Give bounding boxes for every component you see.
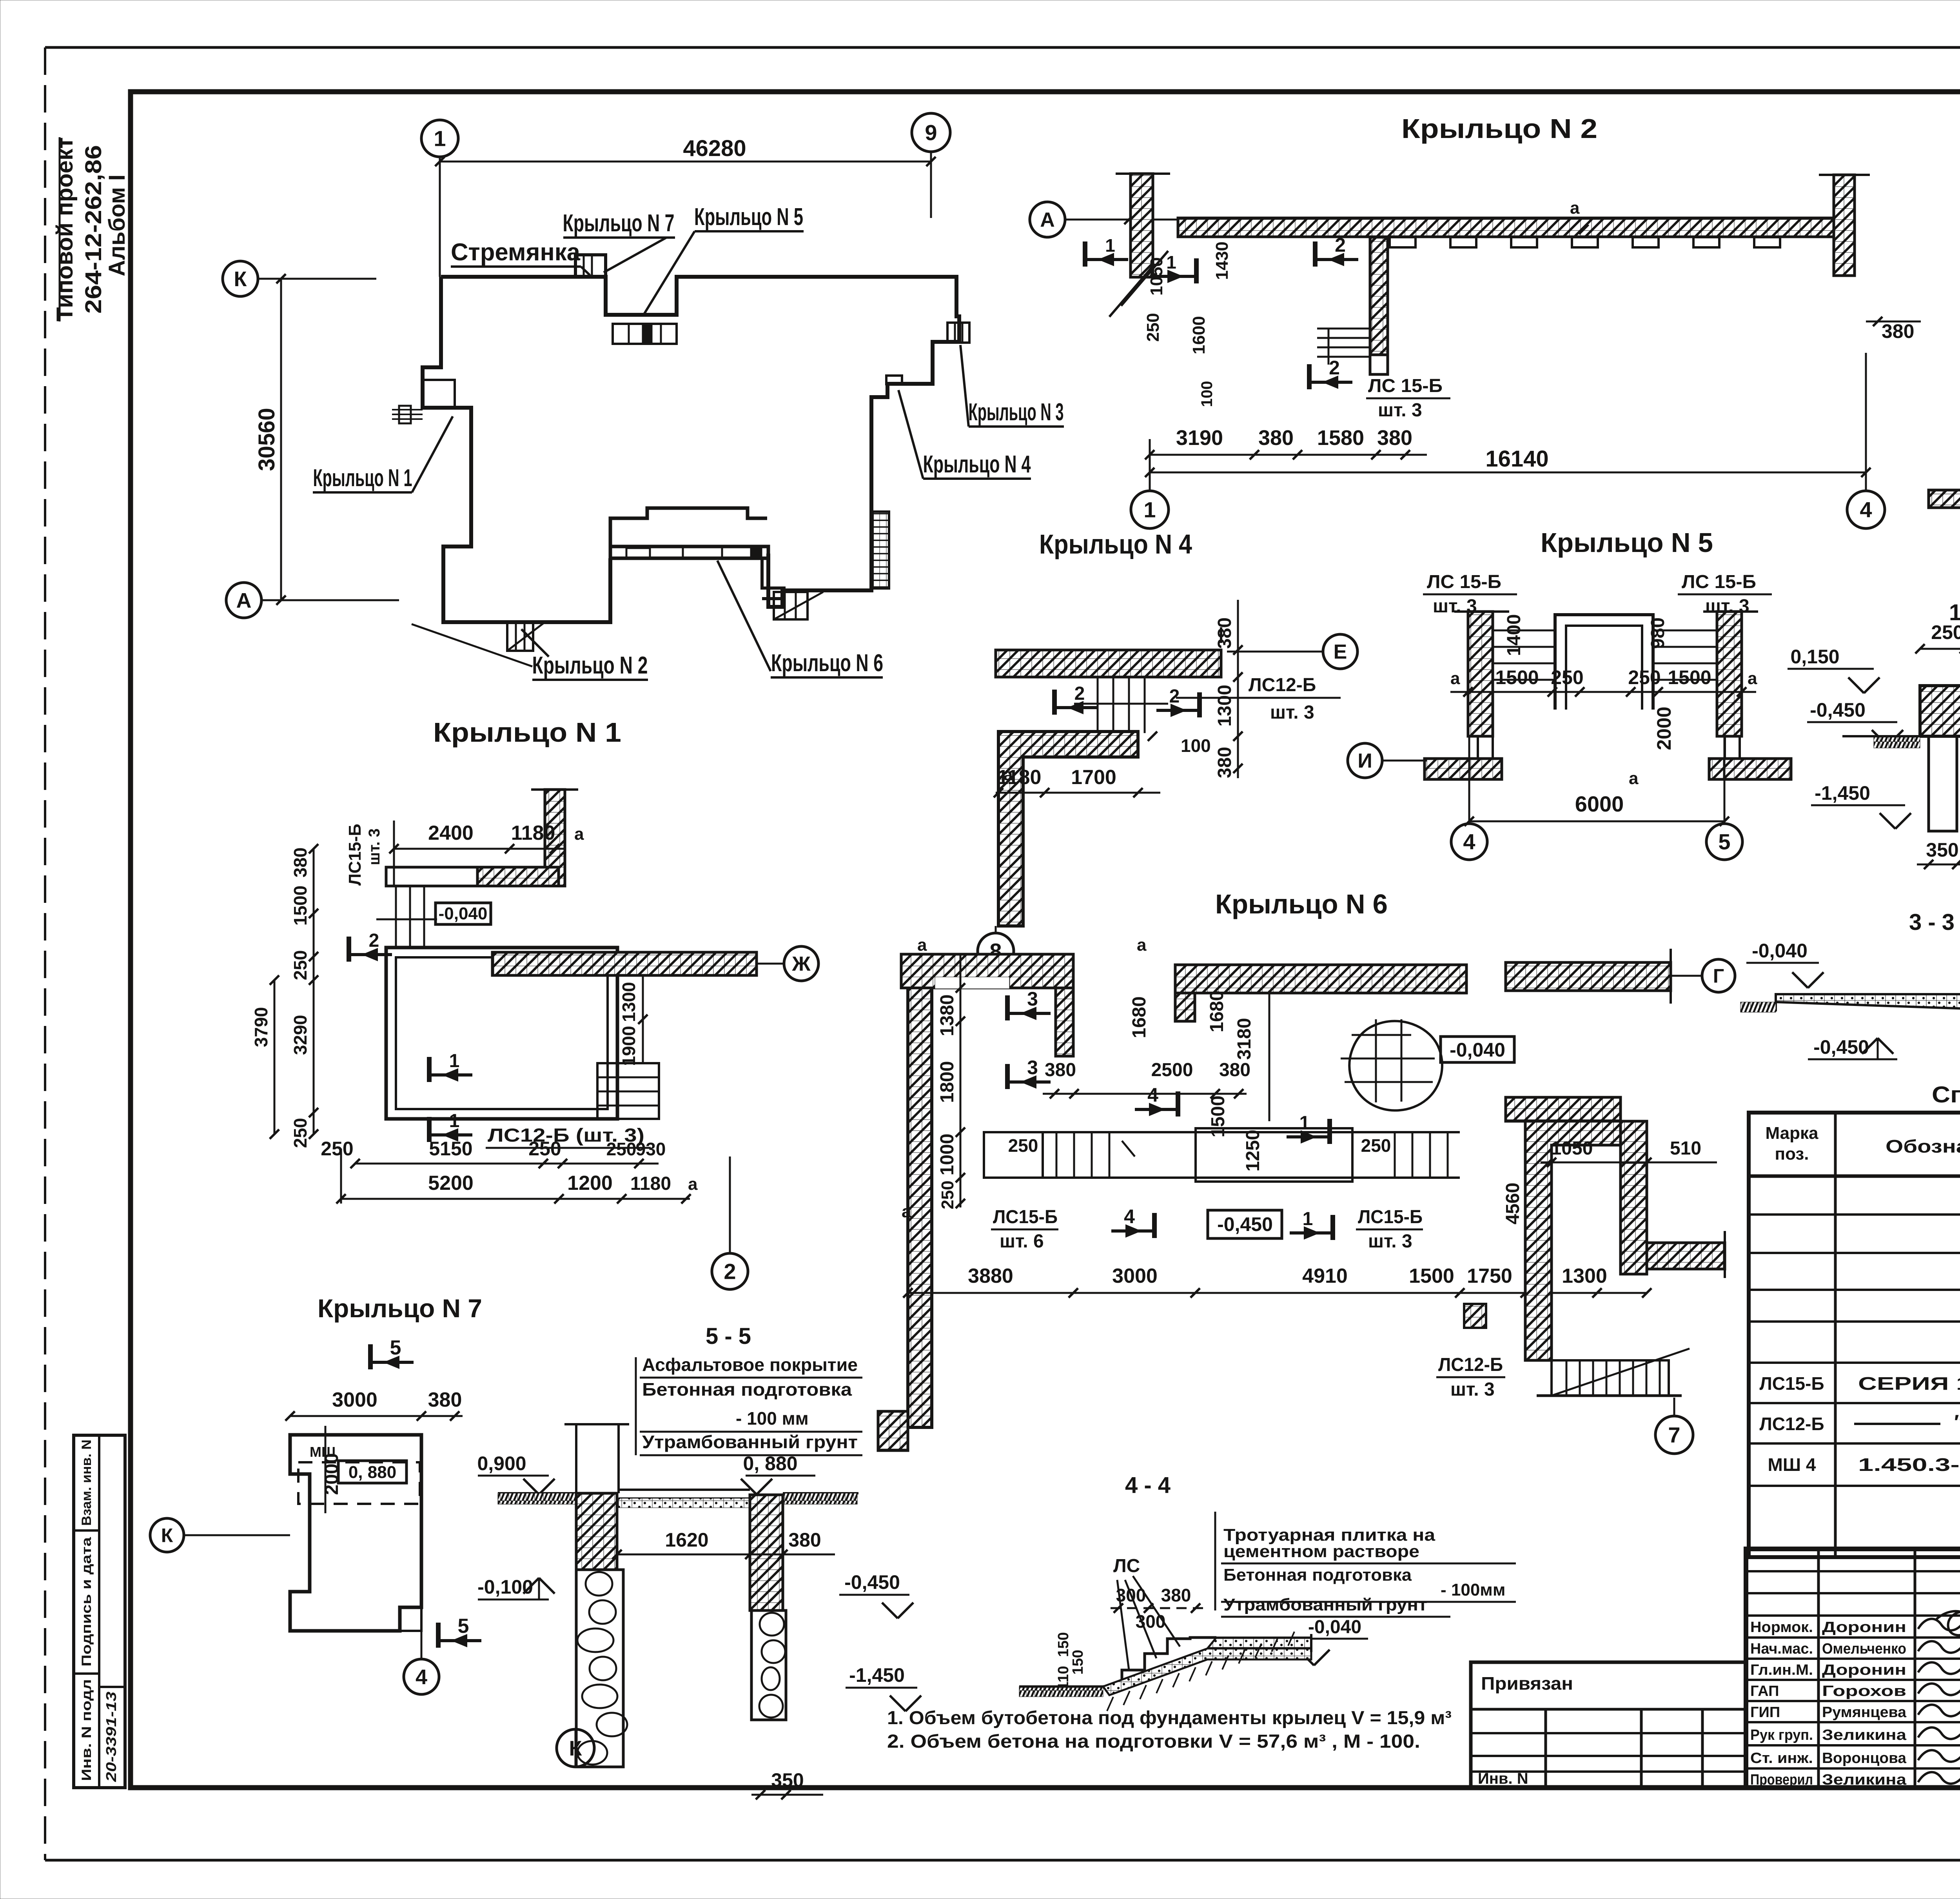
svg-text:2: 2 bbox=[1335, 234, 1346, 256]
svg-text:а: а bbox=[1004, 765, 1013, 784]
svg-text:- 100 мм: - 100 мм bbox=[736, 1408, 809, 1429]
svg-text:2400: 2400 bbox=[428, 822, 474, 844]
svg-text:ЛС12-Б: ЛС12-Б bbox=[1438, 1354, 1503, 1375]
svg-text:″: ″ bbox=[1954, 1411, 1960, 1434]
svg-text:1180: 1180 bbox=[511, 822, 555, 844]
svg-text:Воронцова: Воронцова bbox=[1822, 1750, 1907, 1766]
svg-text:250: 250 bbox=[1551, 666, 1583, 688]
svg-text:930: 930 bbox=[636, 1139, 666, 1159]
svg-text:Крыльцо N 1: Крыльцо N 1 bbox=[313, 465, 412, 492]
svg-text:1700: 1700 bbox=[1071, 766, 1116, 789]
svg-text:380: 380 bbox=[1161, 1585, 1191, 1605]
svg-text:Марка: Марка bbox=[1765, 1124, 1818, 1143]
svg-text:СЕРИЯ 1.055.1-1: СЕРИЯ 1.055.1-1 bbox=[1858, 1373, 1960, 1394]
svg-text:3180: 3180 bbox=[1234, 1018, 1255, 1060]
svg-text:0,150: 0,150 bbox=[1790, 646, 1839, 668]
svg-text:Крыльцо N 6: Крыльцо N 6 bbox=[1215, 889, 1388, 919]
svg-text:ЛС 15-Б: ЛС 15-Б bbox=[1368, 376, 1443, 396]
svg-text:264-12-262,86: 264-12-262,86 bbox=[81, 145, 106, 314]
svg-text:5 - 5: 5 - 5 bbox=[706, 1323, 751, 1349]
svg-text:1: 1 bbox=[1105, 235, 1115, 256]
svg-text:Крыльцо N 7: Крыльцо N 7 bbox=[563, 210, 675, 237]
svg-text:1380: 1380 bbox=[937, 995, 958, 1037]
svg-text:0,900: 0,900 bbox=[477, 1452, 526, 1474]
svg-text:МШ 4: МШ 4 bbox=[1768, 1454, 1816, 1475]
svg-text:-1,450: -1,450 bbox=[1815, 782, 1870, 804]
svg-text:1500: 1500 bbox=[290, 886, 310, 926]
svg-text:ЛС 15-Б: ЛС 15-Б bbox=[1427, 572, 1501, 592]
svg-text:3880: 3880 bbox=[968, 1265, 1013, 1287]
svg-text:1500: 1500 bbox=[1668, 666, 1711, 688]
svg-text:3290: 3290 bbox=[290, 1015, 310, 1055]
svg-text:250: 250 bbox=[290, 950, 310, 980]
svg-text:510: 510 bbox=[1670, 1138, 1701, 1159]
svg-text:-0,040: -0,040 bbox=[1450, 1039, 1505, 1061]
svg-text:Ж: Ж bbox=[792, 953, 811, 975]
svg-text:Крыльцо N 2: Крыльцо N 2 bbox=[532, 652, 648, 679]
svg-text:5: 5 bbox=[390, 1336, 401, 1359]
svg-text:шт. 3: шт. 3 bbox=[1378, 400, 1422, 421]
svg-text:Крыльцо N 3: Крыльцо N 3 bbox=[969, 399, 1064, 426]
svg-text:250: 250 bbox=[606, 1139, 637, 1159]
svg-text:5: 5 bbox=[1718, 830, 1730, 854]
svg-text:ЛС 15-Б: ЛС 15-Б bbox=[1682, 572, 1756, 592]
svg-text:1750: 1750 bbox=[1467, 1265, 1512, 1287]
svg-text:150: 150 bbox=[1055, 1632, 1072, 1657]
svg-text:6000: 6000 bbox=[1575, 792, 1624, 816]
svg-text:Ст. инж.: Ст. инж. bbox=[1750, 1750, 1813, 1766]
svg-text:К: К bbox=[161, 1525, 173, 1547]
svg-text:250: 250 bbox=[938, 1180, 957, 1209]
svg-text:2: 2 bbox=[1169, 686, 1180, 707]
svg-text:ГАП: ГАП bbox=[1750, 1683, 1779, 1699]
svg-text:1600: 1600 bbox=[1189, 316, 1209, 354]
svg-text:Крыльцо N 7: Крыльцо N 7 bbox=[318, 1294, 482, 1323]
svg-text:3790: 3790 bbox=[251, 1007, 271, 1047]
svg-text:250: 250 bbox=[1143, 313, 1163, 341]
svg-text:Инв. N подл: Инв. N подл bbox=[79, 1679, 94, 1781]
svg-text:- 100мм: - 100мм bbox=[1441, 1580, 1505, 1599]
svg-text:А: А bbox=[236, 589, 252, 612]
svg-text:а: а bbox=[1629, 769, 1639, 788]
svg-text:300: 300 bbox=[1136, 1611, 1166, 1632]
svg-text:380: 380 bbox=[1219, 1060, 1250, 1080]
svg-text:980: 980 bbox=[1648, 617, 1668, 649]
svg-text:-0,100: -0,100 bbox=[477, 1576, 533, 1598]
svg-text:шт. 3: шт. 3 bbox=[1450, 1379, 1495, 1400]
svg-text:Крыльцо N 2: Крыльцо N 2 bbox=[1401, 113, 1597, 144]
svg-text:Е: Е bbox=[1334, 641, 1347, 663]
svg-text:30560: 30560 bbox=[254, 408, 279, 471]
svg-text:1580: 1580 bbox=[1317, 426, 1364, 450]
svg-text:1: 1 bbox=[449, 1051, 460, 1071]
svg-text:1300: 1300 bbox=[1562, 1265, 1607, 1287]
svg-text:7: 7 bbox=[1668, 1423, 1680, 1447]
svg-text:1500: 1500 bbox=[1409, 1265, 1454, 1287]
svg-text:1: 1 bbox=[1299, 1113, 1310, 1133]
svg-text:1250: 1250 bbox=[1243, 1130, 1263, 1172]
svg-text:-0,450: -0,450 bbox=[844, 1571, 900, 1593]
svg-text:1050: 1050 bbox=[1147, 257, 1166, 296]
svg-text:Рук груп.: Рук груп. bbox=[1750, 1727, 1813, 1743]
svg-text:ЛС15-Б: ЛС15-Б bbox=[1759, 1373, 1824, 1394]
svg-text:Проверил: Проверил bbox=[1750, 1772, 1813, 1788]
svg-text:Нач.мас.: Нач.мас. bbox=[1750, 1641, 1813, 1657]
svg-text:1200: 1200 bbox=[567, 1172, 613, 1195]
svg-text:2500: 2500 bbox=[1151, 1060, 1193, 1080]
svg-text:250: 250 bbox=[528, 1138, 561, 1160]
svg-text:100: 100 bbox=[1198, 381, 1216, 407]
svg-text:380: 380 bbox=[1045, 1060, 1076, 1080]
svg-text:Крыльцо N 5: Крыльцо N 5 bbox=[694, 203, 803, 231]
svg-text:-0,450: -0,450 bbox=[1217, 1213, 1273, 1235]
svg-text:Горохов: Горохов bbox=[1822, 1683, 1906, 1699]
svg-text:Крыльцо N 1: Крыльцо N 1 bbox=[433, 717, 621, 748]
svg-text:а: а bbox=[1748, 669, 1757, 688]
svg-text:Зеликина: Зеликина bbox=[1822, 1772, 1907, 1788]
svg-text:Типовой проект: Типовой проект bbox=[52, 137, 78, 321]
svg-text:1: 1 bbox=[434, 126, 446, 151]
svg-text:Утрамбованный грунт: Утрамбованный грунт bbox=[642, 1432, 858, 1452]
svg-text:Обозначение: Обозначение bbox=[1886, 1136, 1960, 1156]
svg-text:1: 1 bbox=[1166, 252, 1176, 272]
svg-text:380: 380 bbox=[1377, 426, 1412, 450]
svg-text:Крыльцо N 6: Крыльцо N 6 bbox=[771, 650, 883, 677]
svg-text:4: 4 bbox=[1463, 830, 1475, 854]
svg-text:4: 4 bbox=[1147, 1084, 1158, 1106]
svg-text:16140: 16140 bbox=[1485, 446, 1548, 472]
svg-text:250: 250 bbox=[1008, 1135, 1038, 1156]
svg-text:380: 380 bbox=[428, 1389, 462, 1411]
svg-text:-0,040: -0,040 bbox=[1308, 1617, 1361, 1638]
svg-text:380: 380 bbox=[1214, 747, 1235, 778]
svg-text:9: 9 bbox=[925, 120, 937, 145]
svg-text:2: 2 bbox=[1329, 357, 1340, 379]
svg-text:4: 4 bbox=[1124, 1205, 1135, 1227]
svg-text:380: 380 bbox=[1258, 426, 1294, 450]
svg-text:а: а bbox=[1450, 669, 1460, 688]
svg-text:1680: 1680 bbox=[1129, 997, 1150, 1038]
svg-text:4: 4 bbox=[1860, 497, 1872, 522]
svg-text:3: 3 bbox=[1027, 1057, 1038, 1078]
svg-text:380: 380 bbox=[1882, 320, 1914, 342]
svg-text:Доронин: Доронин bbox=[1822, 1619, 1906, 1636]
svg-text:Бетонная подготовка: Бетонная подготовка bbox=[642, 1379, 852, 1400]
svg-text:ЛС: ЛС bbox=[1113, 1556, 1140, 1576]
svg-text:Бетонная подготовка: Бетонная подготовка bbox=[1223, 1565, 1412, 1585]
svg-text:а: а bbox=[1137, 935, 1147, 955]
svg-text:1: 1 bbox=[1143, 497, 1156, 522]
svg-text:250: 250 bbox=[1628, 666, 1661, 688]
svg-text:ГИП: ГИП bbox=[1750, 1704, 1780, 1721]
svg-text:Крыльцо N 4: Крыльцо N 4 bbox=[1039, 529, 1192, 559]
svg-text:1050: 1050 bbox=[1551, 1138, 1593, 1159]
svg-text:1180: 1180 bbox=[630, 1173, 671, 1194]
svg-text:Крыльцо N 4: Крыльцо N 4 bbox=[923, 451, 1031, 478]
svg-text:380: 380 bbox=[290, 848, 310, 878]
svg-text:46280: 46280 bbox=[683, 136, 746, 161]
svg-text:ЛС15-Б: ЛС15-Б bbox=[345, 824, 365, 886]
svg-text:4910: 4910 bbox=[1302, 1265, 1348, 1287]
svg-text:1680: 1680 bbox=[1207, 991, 1227, 1033]
svg-text:поз.: поз. bbox=[1775, 1144, 1809, 1164]
svg-text:3000: 3000 bbox=[332, 1389, 377, 1411]
svg-text:0, 880: 0, 880 bbox=[743, 1452, 797, 1474]
svg-text:1400: 1400 bbox=[1504, 614, 1524, 656]
svg-text:1. Объем бутобетона под фу: 1. Объем бутобетона под фундаменты крыле… bbox=[887, 1708, 1452, 1728]
svg-text:Инв. N: Инв. N bbox=[1478, 1770, 1528, 1787]
svg-text:ЛС15-Б: ЛС15-Б bbox=[1358, 1207, 1423, 1227]
svg-text:4: 4 bbox=[416, 1665, 427, 1689]
svg-text:а: а bbox=[688, 1175, 698, 1194]
svg-text:Нормок.: Нормок. bbox=[1750, 1619, 1813, 1636]
svg-text:350: 350 bbox=[771, 1769, 804, 1791]
svg-text:5200: 5200 bbox=[428, 1172, 474, 1195]
svg-text:Крыльцо N 5: Крыльцо N 5 bbox=[1541, 527, 1713, 558]
svg-text:Омельченко: Омельченко bbox=[1822, 1641, 1906, 1657]
svg-text:А: А bbox=[1040, 209, 1055, 231]
svg-text:250: 250 bbox=[1931, 621, 1960, 643]
svg-text:Привязан: Привязан bbox=[1481, 1673, 1573, 1694]
svg-text:ЛС15-Б: ЛС15-Б bbox=[993, 1207, 1058, 1227]
svg-text:Подпись и дата: Подпись и дата bbox=[79, 1537, 94, 1667]
svg-text:1000: 1000 bbox=[937, 1134, 958, 1176]
svg-text:3: 3 bbox=[1027, 988, 1038, 1010]
svg-text:1.450.3-3 в.0: 1.450.3-3 в.0 bbox=[1858, 1454, 1960, 1475]
svg-text:2. Объем бетона на подгото: 2. Объем бетона на подготовки V = 57,6 м… bbox=[887, 1731, 1420, 1752]
svg-text:1620: 1620 bbox=[665, 1529, 708, 1551]
svg-text:250: 250 bbox=[321, 1138, 353, 1160]
svg-text:1500: 1500 bbox=[1495, 666, 1539, 688]
svg-text:1: 1 bbox=[1303, 1209, 1313, 1229]
svg-text:1: 1 bbox=[449, 1111, 460, 1131]
svg-text:-0,450: -0,450 bbox=[1810, 699, 1866, 721]
svg-text:И: И bbox=[1357, 750, 1372, 772]
svg-text:цементном растворе: цементном растворе bbox=[1223, 1542, 1419, 1561]
svg-text:шт. 6: шт. 6 bbox=[1000, 1231, 1044, 1252]
svg-text:3 - 3: 3 - 3 bbox=[1909, 910, 1955, 935]
svg-text:350: 350 bbox=[1926, 839, 1958, 861]
svg-text:380: 380 bbox=[788, 1529, 821, 1551]
svg-text:1800: 1800 bbox=[937, 1061, 958, 1103]
svg-text:-1,450: -1,450 bbox=[849, 1664, 905, 1686]
svg-text:а: а bbox=[1570, 198, 1580, 218]
svg-text:2000: 2000 bbox=[1653, 706, 1675, 750]
svg-text:3000: 3000 bbox=[1112, 1265, 1158, 1287]
svg-text:2: 2 bbox=[369, 930, 379, 951]
svg-text:Г: Г bbox=[1713, 965, 1724, 987]
svg-text:20-3391-13: 20-3391-13 bbox=[103, 1692, 119, 1782]
svg-text:а: а bbox=[902, 1202, 911, 1221]
svg-text:Румянцева: Румянцева bbox=[1822, 1704, 1907, 1721]
svg-text:шт. 3: шт. 3 bbox=[1368, 1231, 1412, 1252]
svg-text:шт. 3: шт. 3 bbox=[366, 828, 383, 865]
svg-text:К: К bbox=[234, 267, 247, 291]
svg-text:0, 880: 0, 880 bbox=[348, 1463, 396, 1482]
svg-text:а: а bbox=[574, 824, 584, 844]
svg-text:Зеликина: Зеликина bbox=[1822, 1727, 1907, 1743]
svg-text:ЛС12-Б: ЛС12-Б bbox=[1249, 675, 1316, 695]
svg-text:1300: 1300 bbox=[1214, 685, 1235, 727]
svg-text:-0,040: -0,040 bbox=[439, 904, 488, 923]
svg-text:Взам. инв. N: Взам. инв. N bbox=[79, 1440, 94, 1526]
svg-text:380: 380 bbox=[1214, 617, 1235, 649]
svg-text:-0,040: -0,040 bbox=[1752, 940, 1808, 962]
svg-text:4560: 4560 bbox=[1503, 1183, 1523, 1225]
svg-text:Гл.ин.М.: Гл.ин.М. bbox=[1750, 1662, 1813, 1678]
svg-text:1900: 1900 bbox=[619, 1026, 639, 1066]
svg-text:2: 2 bbox=[724, 1259, 736, 1284]
svg-text:100: 100 bbox=[1181, 735, 1211, 756]
svg-text:Стремянка: Стремянка bbox=[451, 239, 581, 266]
svg-text:4 - 4: 4 - 4 bbox=[1125, 1472, 1171, 1498]
svg-text:ЛС12-Б: ЛС12-Б bbox=[1759, 1414, 1824, 1434]
svg-text:1300: 1300 bbox=[619, 982, 639, 1022]
svg-text:шт. 3: шт. 3 bbox=[1270, 702, 1314, 723]
svg-text:250: 250 bbox=[290, 1118, 310, 1148]
svg-text:150: 150 bbox=[1070, 1650, 1086, 1674]
svg-text:5: 5 bbox=[458, 1615, 469, 1638]
svg-text:3190: 3190 bbox=[1176, 426, 1223, 450]
svg-text:Утрамбованный грунт: Утрамбованный грунт bbox=[1223, 1595, 1427, 1614]
svg-text:Доронин: Доронин bbox=[1822, 1662, 1906, 1678]
svg-text:1430: 1430 bbox=[1212, 241, 1232, 280]
svg-text:а: а bbox=[917, 935, 927, 955]
svg-text:Спецификация изделий на л: Спецификация изделий на лист АС-11 bbox=[1932, 1082, 1960, 1107]
svg-text:Асфальтовое покрытие: Асфальтовое покрытие bbox=[642, 1354, 858, 1375]
svg-text:-0,450: -0,450 bbox=[1813, 1036, 1869, 1058]
svg-text:2: 2 bbox=[1074, 683, 1085, 704]
svg-text:250: 250 bbox=[1361, 1135, 1391, 1156]
svg-text:5150: 5150 bbox=[429, 1138, 472, 1160]
svg-text:Альбом I: Альбом I bbox=[104, 174, 130, 276]
